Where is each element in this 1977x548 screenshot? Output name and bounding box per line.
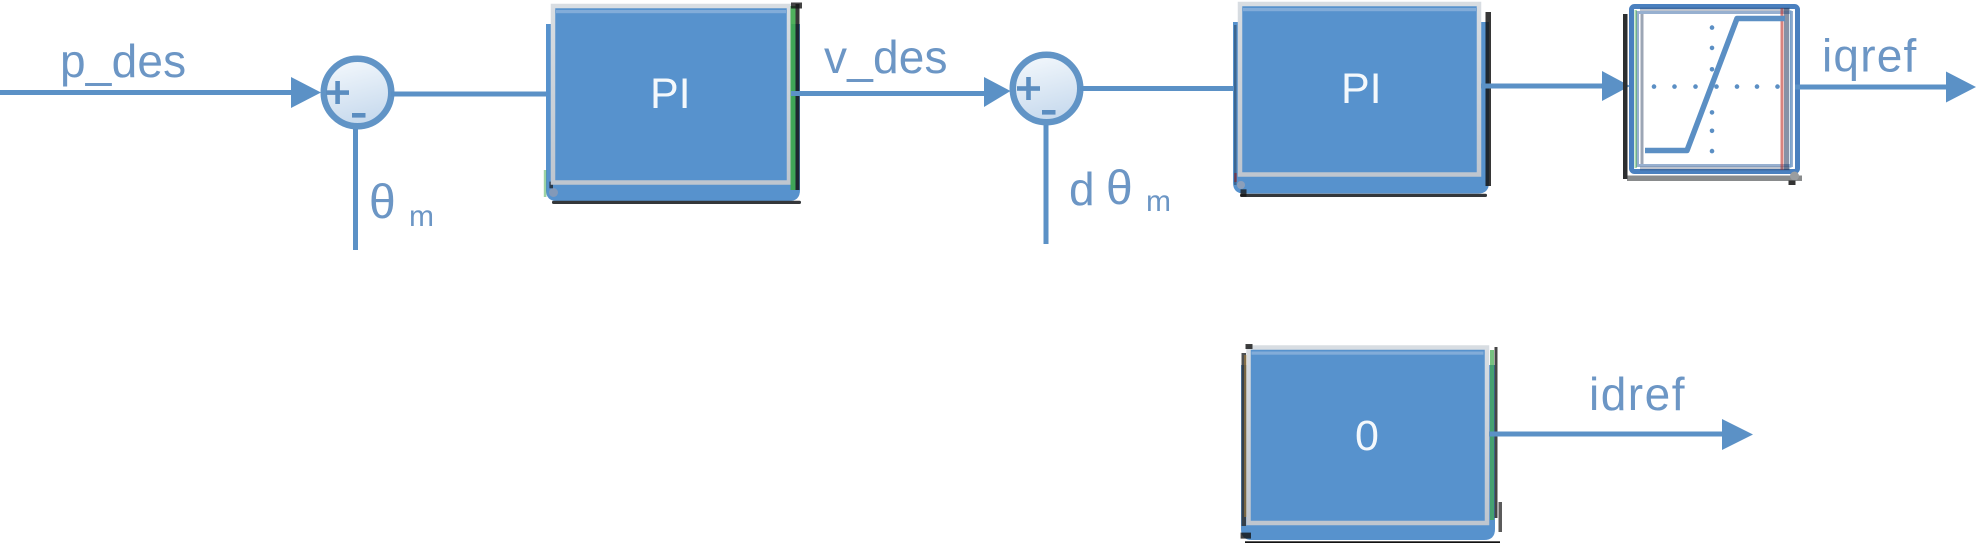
block ZERO shadow bbox=[1241, 365, 1495, 540]
block ZERO inner top highlight bbox=[1252, 352, 1484, 355]
label theta m bbox=[369, 176, 434, 233]
label d theta m bbox=[1069, 162, 1171, 218]
arrowhead into summing junction S1 bbox=[291, 77, 321, 108]
arrowhead into saturation block bbox=[1602, 71, 1630, 101]
plus sign in S2 bbox=[1017, 77, 1040, 100]
block ZERO left shadow dark edge bbox=[1242, 353, 1247, 526]
wire PI2 to saturation bbox=[1481, 84, 1605, 89]
svg-text:m: m bbox=[409, 200, 434, 233]
minus sign in S2 bbox=[1042, 110, 1056, 115]
summing junction S2 bbox=[1013, 55, 1081, 123]
plus sign in S1 bbox=[326, 81, 349, 104]
block PI1 bbox=[553, 6, 789, 183]
block PI2 right edge artifact columns bbox=[1234, 12, 1491, 186]
svg-text:θ: θ bbox=[369, 176, 396, 229]
wire saturation to output bbox=[1795, 85, 1949, 90]
wire S2 down (d theta_m feedback) bbox=[1044, 125, 1049, 244]
wire PI1 to S2 (v_des) bbox=[791, 91, 987, 96]
block PI1 shadow bbox=[546, 24, 800, 201]
block PI2 shadow dark edge bbox=[1240, 194, 1487, 197]
block PI2 bbox=[1240, 4, 1479, 175]
svg-text:iqref: iqref bbox=[1822, 30, 1917, 82]
block PI2 bottom-left corner artifacts bbox=[1234, 173, 1246, 197]
block PI1 inner top highlight bbox=[556, 10, 786, 13]
svg-text:v_des: v_des bbox=[824, 31, 948, 83]
saturation curve bbox=[1645, 19, 1785, 151]
saturation bottom-right corner blob bbox=[1789, 172, 1800, 186]
summing junction S1 bbox=[324, 59, 392, 127]
svg-text:PI: PI bbox=[650, 70, 691, 118]
block PI1 right edge artifact columns bbox=[791, 3, 803, 191]
saturation block left shadow bbox=[1623, 14, 1628, 179]
block PI2 shadow bbox=[1233, 22, 1489, 194]
block ZERO bbox=[1249, 348, 1488, 524]
svg-text:0: 0 bbox=[1355, 412, 1379, 460]
wire p_des input bbox=[0, 90, 293, 95]
saturation block bottom shadow bbox=[1627, 176, 1802, 182]
block ZERO edge artifact marks bbox=[1241, 344, 1502, 543]
block PI1 bottom-left corner artifacts bbox=[544, 170, 558, 197]
block PI2 inner top highlight bbox=[1243, 8, 1476, 11]
arrowhead iqref output bbox=[1946, 72, 1976, 103]
block PI1 shadow dark edge bbox=[552, 201, 801, 204]
svg-text:θ: θ bbox=[1106, 162, 1133, 215]
svg-text:idref: idref bbox=[1589, 368, 1686, 420]
wire S2 to PI2 bbox=[1080, 86, 1240, 91]
svg-text:d: d bbox=[1069, 163, 1095, 215]
svg-text:PI: PI bbox=[1341, 65, 1382, 113]
arrowhead into summing junction S2 bbox=[984, 77, 1011, 107]
svg-text:m: m bbox=[1146, 185, 1171, 218]
wire S1 to PI1 bbox=[391, 92, 552, 97]
svg-text:p_des: p_des bbox=[60, 35, 186, 87]
saturation dotted horizontal axis bbox=[1652, 84, 1780, 89]
minus sign in S1 bbox=[352, 113, 366, 118]
wire S1 down (theta_m feedback) bbox=[353, 129, 358, 250]
saturation frame artifact columns bbox=[1635, 8, 1792, 171]
wire ZERO to idref output bbox=[1489, 432, 1724, 437]
saturation block frame bbox=[1632, 7, 1798, 172]
saturation dotted vertical axis bbox=[1710, 25, 1715, 153]
arrowhead idref output bbox=[1722, 419, 1753, 450]
